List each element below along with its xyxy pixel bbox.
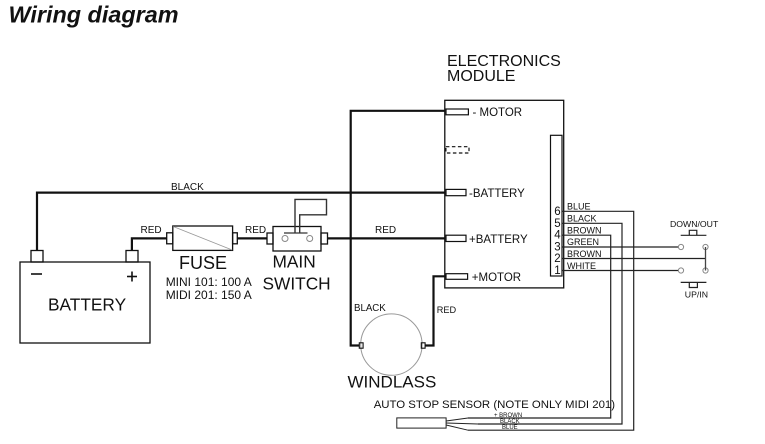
- svg-text:MINI 101: 100 A: MINI 101: 100 A: [166, 275, 252, 289]
- svg-text:4: 4: [554, 230, 561, 242]
- wire brown pin2: [562, 258, 706, 260]
- svg-text:UP/IN: UP/IN: [685, 289, 708, 299]
- svg-text:1: 1: [554, 265, 560, 277]
- svg-text:WHITE: WHITE: [567, 261, 596, 271]
- svg-text:3: 3: [554, 241, 560, 253]
- main switch contacts: [282, 236, 313, 242]
- svg-text:BLACK: BLACK: [354, 303, 386, 314]
- wire red: switch to +BATTERY terminal: [328, 237, 445, 239]
- wire black: battery minus to -BATTERY terminal: [37, 193, 445, 251]
- svg-text:-BATTERY: -BATTERY: [469, 188, 525, 200]
- svg-text:+BATTERY: +BATTERY: [469, 234, 528, 246]
- auto stop sensor body: [397, 418, 446, 428]
- svg-text:MODULE: MODULE: [447, 68, 515, 85]
- terminal -BATTERY: [446, 189, 466, 195]
- svg-text:- MOTOR: - MOTOR: [473, 107, 523, 119]
- svg-text:SWITCH: SWITCH: [263, 274, 331, 294]
- sensor wire fan brown: [446, 418, 468, 421]
- battery minus sign: [31, 273, 42, 275]
- main switch bar: [284, 232, 308, 234]
- svg-text:2: 2: [554, 253, 560, 265]
- svg-text:FUSE: FUSE: [179, 253, 227, 273]
- svg-text:RED: RED: [245, 225, 266, 236]
- svg-text:+MOTOR: +MOTOR: [472, 272, 521, 284]
- windlass motor M1: [361, 314, 422, 375]
- down button symbol: [681, 230, 707, 235]
- svg-text:Wiring diagram: Wiring diagram: [9, 2, 179, 28]
- electronics module U1: [445, 100, 564, 288]
- connector J1: [551, 135, 563, 276]
- dashed connector stub: [446, 147, 469, 153]
- svg-text:MAIN: MAIN: [273, 252, 316, 272]
- control switch bar: [705, 247, 707, 271]
- svg-text:BLACK: BLACK: [171, 182, 204, 193]
- svg-text:DOWN/OUT: DOWN/OUT: [670, 219, 719, 229]
- wire red: +MOTOR to windlass: [425, 276, 446, 345]
- terminal +BATTERY: [446, 235, 466, 241]
- svg-text:5: 5: [554, 218, 560, 230]
- svg-text:BROWN: BROWN: [567, 225, 602, 235]
- wire black pin5: [478, 223, 622, 424]
- windlass right terminal: [421, 343, 425, 348]
- wire red: battery plus to fuse: [132, 238, 167, 250]
- svg-text:BLACK: BLACK: [567, 214, 597, 224]
- svg-text:BATTERY: BATTERY: [48, 295, 127, 315]
- terminal -MOTOR: [446, 109, 468, 115]
- sensor wire fan black: [446, 423, 478, 424]
- svg-text:AUTO STOP SENSOR (NOTE ONLY MI: AUTO STOP SENSOR (NOTE ONLY MIDI 201): [374, 399, 616, 411]
- control switch contacts: [678, 244, 708, 273]
- main switch handle: [295, 199, 327, 233]
- wire green pin3: [562, 246, 678, 248]
- wire blue pin6: [468, 211, 634, 430]
- battery B1: [20, 251, 150, 344]
- wire red: fuse to main switch: [237, 237, 267, 239]
- svg-text:BLUE: BLUE: [567, 202, 591, 212]
- svg-text:WINDLASS: WINDLASS: [348, 373, 437, 392]
- wire brown pin4: [468, 235, 611, 418]
- svg-text:BROWN: BROWN: [567, 249, 602, 259]
- svg-text:6: 6: [554, 206, 560, 218]
- terminal +MOTOR: [446, 274, 468, 280]
- wire white pin1: [562, 270, 678, 272]
- up button symbol: [681, 282, 707, 287]
- wire black: -MOTOR to windlass: [351, 111, 445, 346]
- svg-text:BLUE: BLUE: [502, 425, 518, 431]
- battery plus sign: [127, 272, 137, 282]
- svg-text:RED: RED: [141, 225, 162, 236]
- main switch S1: [267, 227, 328, 252]
- windlass left terminal: [359, 343, 363, 348]
- fuse diagonal: [173, 227, 232, 251]
- svg-text:RED: RED: [375, 225, 396, 236]
- sensor wire fan blue: [446, 425, 468, 430]
- svg-text:MIDI 201: 150 A: MIDI 201: 150 A: [166, 288, 252, 302]
- svg-text:GREEN: GREEN: [567, 237, 599, 247]
- fuse F1: [167, 226, 238, 250]
- svg-text:RED: RED: [437, 305, 457, 315]
